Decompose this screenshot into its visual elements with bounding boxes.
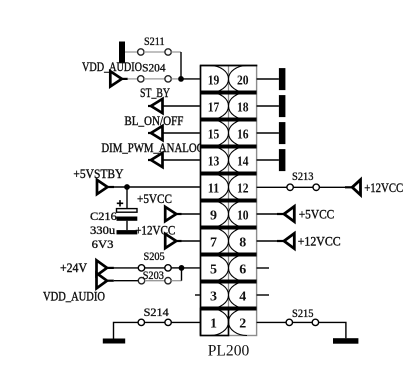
- connector top border: [200, 65, 257, 67]
- svg-text:+24V: +24V: [60, 260, 88, 275]
- jumper S215: [286, 319, 292, 325]
- wire S211 from ground bar to jumper: [125, 51, 138, 53]
- svg-text:13: 13: [208, 155, 220, 170]
- svg-text:S204: S204: [142, 63, 166, 75]
- svg-text:330u: 330u: [90, 225, 115, 237]
- wire to pin 17: [163, 105, 201, 107]
- wire S205 to pin5 junction: [171, 267, 181, 269]
- pin 6 stub: [257, 267, 269, 269]
- svg-text:8: 8: [239, 236, 246, 251]
- jumper S213: [287, 184, 293, 190]
- ground bar (below C216): [117, 230, 138, 234]
- svg-text:5: 5: [210, 263, 217, 278]
- wire S215 to ground: [319, 322, 346, 338]
- svg-text:1: 1: [210, 317, 217, 332]
- ground bar (pin 18): [279, 95, 286, 117]
- svg-text:+5VCC: +5VCC: [299, 207, 335, 222]
- svg-text:S211: S211: [144, 36, 165, 48]
- svg-text:+12VCC: +12VCC: [298, 234, 341, 249]
- svg-text:10: 10: [237, 209, 249, 224]
- wire to S203: [114, 280, 139, 282]
- jumper S203: [138, 278, 144, 284]
- pin numbers right column: [237, 74, 249, 332]
- wire to pin 5: [182, 267, 201, 269]
- VDD_AUDIO flag (output arrow): [110, 71, 122, 86]
- ground bar (pin 20): [279, 68, 286, 90]
- wire pin 2 to S215: [257, 321, 287, 323]
- svg-text:20: 20: [237, 74, 249, 89]
- wire to S204: [128, 78, 138, 80]
- svg-text:S205: S205: [144, 251, 165, 263]
- svg-text:+12VCC: +12VCC: [364, 180, 403, 195]
- jumper S211: [138, 49, 144, 55]
- ground bar (bottom-right): [333, 338, 358, 344]
- svg-text:7: 7: [210, 236, 217, 251]
- pin 4 stub: [257, 294, 269, 296]
- svg-text:6: 6: [239, 263, 246, 278]
- svg-text:17: 17: [208, 101, 220, 116]
- ground bar (bottom-left): [103, 339, 125, 344]
- jumper S204: [138, 76, 144, 82]
- pin numbers left column: [208, 74, 220, 332]
- jumper S205: [138, 265, 144, 271]
- wire pin 8 to +12VCC flag: [257, 240, 277, 242]
- connector center line: [228, 66, 230, 336]
- svg-text:S203: S203: [143, 270, 164, 282]
- svg-text:4: 4: [239, 290, 246, 305]
- wire to pin 15: [163, 132, 201, 134]
- wire pin 18 to ground: [257, 105, 279, 107]
- wire S214 to pin 1: [171, 321, 200, 323]
- +5VCC flag (pin 10): [284, 206, 294, 221]
- svg-text:BL_ON/OFF: BL_ON/OFF: [124, 113, 183, 128]
- junction dot cap: [124, 184, 130, 190]
- +5VSTBY flag: [97, 180, 108, 194]
- svg-text:19: 19: [208, 74, 220, 89]
- +24V flag: [97, 260, 108, 275]
- svg-text:C216: C216: [90, 211, 117, 223]
- wire S213 to +12VCC flag: [319, 186, 345, 188]
- svg-text:15: 15: [208, 128, 220, 143]
- svg-text:14: 14: [237, 155, 249, 170]
- capacitor C216 bottom plate: [117, 217, 138, 221]
- ground bar (pin 14): [279, 149, 286, 171]
- svg-text:9: 9: [210, 209, 217, 224]
- svg-text:16: 16: [237, 128, 249, 143]
- svg-text:+5VSTBY: +5VSTBY: [73, 166, 124, 181]
- pin 3 stub: [195, 294, 201, 296]
- svg-text:S214: S214: [144, 307, 169, 319]
- wire pin 16 to ground: [257, 132, 279, 134]
- pin 1 cell square: [201, 309, 229, 336]
- wire pin 20 to ground: [257, 78, 279, 80]
- jumper S214: [138, 319, 144, 325]
- svg-text:+5VCC: +5VCC: [137, 191, 172, 206]
- wire to pin 9: [182, 213, 201, 215]
- wire to pin 19: [181, 78, 201, 80]
- wire S204 to junction: [171, 78, 178, 80]
- svg-text:S213: S213: [292, 171, 314, 183]
- ground bar (top-left, at S211): [119, 42, 125, 64]
- ground bar (pin 16): [279, 122, 286, 144]
- connector PL200 body: [201, 66, 257, 336]
- wire pin 12 to S213: [257, 186, 287, 188]
- wire to pin 7: [182, 240, 201, 242]
- wire S203 up to junction: [171, 280, 181, 282]
- +5VCC flag (pin 9): [165, 207, 176, 221]
- wire cap to ground: [126, 221, 128, 230]
- svg-text:3: 3: [210, 290, 217, 305]
- DIM_PWM_ANALOG flag: [148, 159, 152, 161]
- wire pin 14 to ground: [257, 159, 279, 161]
- junction dot pin 5: [179, 265, 185, 271]
- capacitor C216 top plate: [117, 209, 138, 213]
- wire S214 to ground: [114, 322, 139, 338]
- wire to pin 11: [114, 186, 201, 188]
- svg-text:18: 18: [237, 101, 249, 116]
- wire to capacitor: [126, 187, 128, 209]
- svg-text:2: 2: [239, 317, 246, 332]
- wire from S211 to junction: [171, 51, 181, 53]
- svg-text:VDD_AUDIO: VDD_AUDIO: [43, 289, 105, 304]
- svg-text:PL200: PL200: [208, 343, 250, 360]
- wire to pin 13: [163, 159, 201, 161]
- connector row separator bars: [201, 91, 257, 311]
- svg-text:11: 11: [208, 182, 220, 197]
- connector left border: [200, 66, 202, 336]
- wire to S205: [114, 267, 139, 269]
- VDD_AUDIO flag (bottom): [97, 273, 108, 288]
- ST_BY flag (input arrow): [148, 105, 152, 107]
- junction dot pin19 net: [178, 76, 184, 82]
- +12VCC flag (pin 8): [284, 233, 294, 248]
- connector contact arcs: [210, 66, 247, 336]
- BL_ON/OFF flag: [148, 132, 152, 134]
- capacitor C216 plus sign: [117, 200, 123, 206]
- wire pin 10 to +5VCC flag: [257, 213, 277, 215]
- svg-text:ST_BY: ST_BY: [140, 85, 170, 100]
- svg-text:6V3: 6V3: [92, 239, 114, 251]
- svg-text:S215: S215: [292, 308, 314, 320]
- +12VCC flag (pin 12): [352, 180, 360, 195]
- svg-text:12: 12: [237, 182, 249, 197]
- +12VCC flag (pin 7): [165, 234, 176, 248]
- svg-text:DIM_PWM_ANALOG: DIM_PWM_ANALOG: [101, 140, 204, 155]
